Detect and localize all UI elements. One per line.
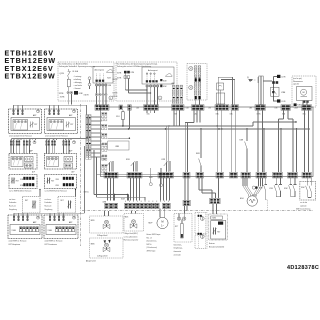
svg-text:Heizen WW-Pumpe: Heizen WW-Pumpe bbox=[147, 234, 161, 236]
svg-text:R1T: R1T bbox=[217, 231, 220, 233]
valve M3S shutoff bbox=[86, 238, 123, 263]
svg-text:L7B: L7B bbox=[208, 108, 211, 110]
relay K3M contact bbox=[263, 75, 285, 103]
svg-text:- Lastweg-: - Lastweg- bbox=[74, 75, 82, 78]
connector X18A bbox=[302, 172, 312, 178]
PCB A2P room thermostat bbox=[45, 139, 77, 192]
svg-text:R1T: R1T bbox=[70, 124, 73, 126]
connector X5M 3pin bbox=[172, 105, 185, 111]
pin strip X5M wires bbox=[172, 82, 183, 104]
breaker Q1DI bbox=[60, 69, 79, 76]
svg-text:R1T: R1T bbox=[34, 124, 37, 126]
connector X2YB in D2 bbox=[112, 71, 134, 81]
svg-text:L2YB: L2YB bbox=[281, 77, 285, 79]
connector row below outdoor box D1 bbox=[95, 84, 112, 105]
box outdoor unit in D1 bbox=[93, 67, 113, 84]
connector strip left stack bbox=[86, 115, 91, 160]
box D3 interface bbox=[187, 64, 207, 101]
booster heater box in D4 bbox=[294, 87, 312, 107]
PCB A9P digital IO bbox=[44, 215, 78, 247]
labels X*A under top connectors bbox=[147, 112, 307, 115]
note circle 1 in D1 bbox=[109, 96, 113, 100]
svg-text:R5T: R5T bbox=[51, 181, 54, 183]
tank sensor R2T box bbox=[174, 214, 192, 243]
svg-text:Fusboden-: Fusboden- bbox=[45, 202, 53, 204]
external user interface box bbox=[195, 213, 207, 249]
wire relay common bbox=[97, 174, 173, 176]
svg-text:Tarifvergutte Verbindlich. Spa: Tarifvergutte Verbindlich. Spannungsvers… bbox=[59, 65, 95, 68]
connector X1M 4pin bbox=[95, 105, 109, 111]
PCB A1P main box bbox=[95, 105, 314, 177]
PCB A8P digital IO bbox=[8, 215, 42, 247]
svg-text:Nur fur Anschluss von Niederta: Nur fur Anschluss von Niedertarif-Netz bbox=[59, 63, 88, 66]
svg-text:L5B: L5B bbox=[136, 108, 139, 110]
connector X16A bbox=[273, 172, 283, 178]
connector X8A 2pin bbox=[302, 105, 312, 111]
sensor box R6T outdoor sensor bbox=[9, 189, 41, 213]
svg-text:R2T: R2T bbox=[175, 226, 178, 228]
svg-text:ETBX12E9W: ETBX12E9W bbox=[5, 72, 56, 80]
terminal X1M long strip bbox=[121, 198, 159, 208]
PCB A2P room thermostat bbox=[9, 139, 37, 192]
svg-text:K1M: K1M bbox=[79, 93, 83, 95]
diode symbol on wire bbox=[149, 168, 152, 186]
terminal X4M bbox=[199, 178, 220, 204]
connector X15A bbox=[256, 172, 267, 178]
svg-text:X1M: X1M bbox=[121, 198, 125, 200]
contact K1M bbox=[269, 178, 281, 197]
svg-text:X22YB: X22YB bbox=[112, 93, 117, 95]
svg-text:M: M bbox=[105, 244, 107, 247]
svg-text:L9B: L9B bbox=[275, 108, 278, 110]
fuse in D1 bbox=[67, 77, 70, 92]
box D4 optional domestic hot water tank bbox=[292, 76, 316, 107]
svg-text:R5T: R5T bbox=[16, 181, 19, 183]
backup heater E1H bbox=[240, 178, 263, 206]
connector X6YA 2pin bbox=[255, 105, 266, 111]
connector X9A bbox=[183, 172, 190, 178]
connector X2YB bbox=[59, 91, 89, 105]
svg-text:Fusboden-: Fusboden- bbox=[9, 202, 17, 204]
sensor node symbol bbox=[160, 168, 163, 187]
relay K6R bbox=[196, 153, 201, 172]
box D1 preferential tariff power supply bbox=[58, 62, 114, 101]
pump note text bbox=[147, 234, 161, 253]
svg-text:M: M bbox=[105, 221, 107, 224]
connector X17A bbox=[288, 172, 298, 178]
note circle 1 in D2 bbox=[158, 96, 162, 100]
connector strip X11A column bbox=[102, 113, 107, 173]
connector small X8M bbox=[119, 105, 123, 110]
connector X7A 2pin bbox=[281, 105, 291, 111]
terminal X2M bbox=[103, 202, 118, 209]
relay K4R bbox=[240, 136, 248, 172]
contact K1M in D1 bbox=[88, 77, 91, 89]
svg-text:Tarifvergutte weit mit. kWh-An: Tarifvergutte weit mit. kWh-Anschlusslei… bbox=[117, 65, 151, 68]
pin strip in D3 bbox=[194, 66, 200, 105]
note list in D1 bbox=[74, 75, 82, 90]
svg-text:Umgebungs-: Umgebungs- bbox=[174, 248, 184, 250]
svg-text:Aufsengerat: Aufsengerat bbox=[95, 69, 105, 72]
box outdoor unit in D2 bbox=[142, 67, 174, 84]
relay K8R box bbox=[108, 138, 131, 151]
box D2 normal tariff power supply bbox=[116, 62, 177, 101]
svg-text:- Gesamt: - Gesamt bbox=[74, 87, 82, 90]
svg-text:4PW-Pumpe: 4PW-Pumpe bbox=[147, 251, 156, 253]
connector single bbox=[128, 105, 132, 111]
PCB A3P user interface bbox=[9, 109, 42, 138]
terminal X1M part2 bbox=[163, 203, 171, 208]
wire bus row1 to PCB bbox=[14, 105, 87, 115]
cable shield strip bbox=[258, 76, 264, 105]
svg-text:L10B: L10B bbox=[294, 108, 298, 110]
svg-text:- und siehe: - und siehe bbox=[74, 85, 82, 87]
valve M2S three-way bbox=[90, 211, 124, 237]
svg-text:X10M: X10M bbox=[48, 230, 53, 232]
relay K1R bbox=[103, 159, 114, 171]
svg-text:K3M: K3M bbox=[281, 92, 285, 94]
wire bus row2 to PCB bbox=[12, 115, 89, 140]
fuse F1U bbox=[116, 111, 124, 127]
connector X10A bbox=[196, 172, 204, 178]
connector X14A bbox=[241, 172, 251, 178]
svg-text:M: M bbox=[161, 220, 163, 224]
tank note text bbox=[174, 243, 184, 256]
svg-text:L8B: L8B bbox=[249, 108, 252, 110]
pump M1P bbox=[149, 209, 169, 229]
PCB A4P user interface bbox=[45, 109, 78, 138]
svg-text:Umgebung: Umgebung bbox=[45, 209, 53, 211]
svg-text:X21YB: X21YB bbox=[112, 96, 117, 98]
wire bus L bbox=[108, 128, 310, 130]
connector X1A 3pin bbox=[144, 105, 159, 111]
svg-text:X12YB: X12YB bbox=[112, 79, 117, 81]
svg-text:Q1DI: Q1DI bbox=[60, 73, 65, 75]
relay K5R bbox=[126, 159, 138, 171]
svg-text:L1YB: L1YB bbox=[281, 101, 285, 103]
svg-text:M: M bbox=[132, 221, 134, 224]
connector base K1R bbox=[104, 172, 118, 178]
wire lower left runs bbox=[94, 150, 188, 201]
connector X2A 3pin bbox=[192, 105, 205, 111]
boundary field wiring horizontal bbox=[82, 210, 313, 212]
svg-text:X1YB: X1YB bbox=[117, 77, 121, 79]
contact K3M optional heater box bbox=[300, 178, 316, 211]
connector base K5R bbox=[127, 172, 142, 178]
svg-text:schaltung: schaltung bbox=[74, 78, 81, 81]
wire bus row4 to PCB bbox=[14, 146, 85, 215]
valve M2S two-way bbox=[124, 211, 144, 242]
svg-text:R6T: R6T bbox=[25, 200, 28, 202]
wires strip to PCB bbox=[91, 117, 101, 157]
svg-text:X11YB: X11YB bbox=[84, 95, 89, 97]
svg-text:R6T: R6T bbox=[61, 200, 64, 202]
contact K2M bbox=[284, 178, 296, 197]
svg-text:Umgebung: Umgebung bbox=[9, 209, 17, 211]
component U1 loop bbox=[216, 77, 235, 104]
terminal X3M bbox=[183, 200, 190, 205]
tick labels above X1M strip bbox=[125, 201, 169, 202]
connector X12A bbox=[216, 172, 224, 178]
external interface A9P box bbox=[209, 214, 228, 248]
connector X4A 2pin bbox=[231, 105, 239, 111]
node dots on buses bbox=[122, 121, 297, 129]
sensor box R6T outdoor sensor bbox=[45, 189, 77, 213]
svg-text:- abhangig: - abhangig bbox=[74, 82, 82, 84]
relay K2R bbox=[162, 159, 171, 171]
boundary field wiring vertical bbox=[80, 104, 82, 246]
wire bus N bbox=[108, 122, 296, 126]
connector row below outdoor box D2 bbox=[146, 85, 167, 105]
svg-text:X5M 4x: X5M 4x bbox=[84, 191, 90, 193]
svg-text:Nur fur Anschluss der Spannung: Nur fur Anschluss der Spannungsversorgun… bbox=[117, 63, 158, 66]
svg-text:X2YB: X2YB bbox=[117, 72, 121, 74]
svg-text:8L 30A: 8L 30A bbox=[73, 70, 79, 73]
svg-text:X10M: X10M bbox=[212, 218, 217, 220]
svg-text:4D128378C: 4D128378C bbox=[287, 265, 319, 271]
svg-text:X10M: X10M bbox=[12, 230, 17, 232]
connector X13A bbox=[230, 172, 238, 178]
wire X3M to tank sensor bbox=[185, 206, 188, 214]
svg-text:L6B: L6B bbox=[186, 108, 189, 110]
connector base K2R bbox=[158, 172, 174, 178]
shield earth symbol bbox=[247, 77, 256, 82]
wire drops from top connectors bbox=[129, 111, 308, 173]
svg-text:M: M bbox=[303, 92, 305, 94]
svg-text:Aufsengerat: Aufsengerat bbox=[148, 69, 158, 72]
wire X2YB to outdoor D2 bbox=[112, 73, 151, 98]
contact K5M bbox=[259, 178, 267, 210]
wire X4M to external interface bbox=[213, 204, 217, 214]
connector X3A 4pin bbox=[215, 105, 229, 111]
